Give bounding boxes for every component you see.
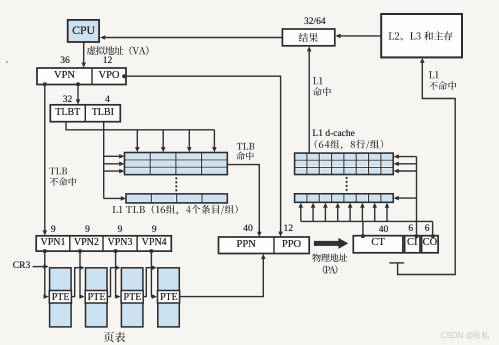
wire: VPN to TLBT/TLBI — [76, 84, 81, 104]
wire: PTE1 to page table 2 — [71, 265, 85, 296]
page table column 2 with PTE — [85, 268, 107, 327]
wire: TLBT tag bus into L1 TLB sets — [66, 122, 217, 153]
arrow: physical address thick arrow — [314, 238, 348, 249]
wire: VPN2 to PTE2 — [79, 251, 84, 299]
node: CT top junction — [361, 234, 365, 238]
wire: VPO to PPO — [124, 76, 283, 237]
text: VPO — [98, 70, 119, 82]
ellipsis dots between TLB grids — [175, 177, 177, 191]
box: L2 L3 and main memory — [381, 14, 462, 57]
label: L1 miss — [429, 71, 457, 90]
grid: L1 TLB upper 4x3 — [125, 153, 228, 175]
watermark: CSDN — [441, 331, 474, 340]
text: L1 d-cache — [312, 129, 354, 140]
text: TLBT — [55, 107, 80, 118]
label: L1 hit — [313, 77, 331, 96]
box: CPU — [68, 20, 99, 42]
text: CO — [423, 237, 438, 249]
text: PTE3 — [124, 292, 142, 303]
label: d-cache organisation — [315, 140, 384, 150]
wire: CT compare bus with arrows into cache line — [299, 203, 433, 235]
wire: TLB hit, L1 TLB to PPN — [227, 165, 261, 237]
label: page table (yebiao) — [104, 332, 126, 343]
text: VPN4 — [142, 237, 167, 248]
node: VPN2 junction — [78, 249, 82, 253]
text: VPN2 — [74, 237, 99, 248]
wire: L1 miss, physical address to L2 via right side — [389, 58, 455, 275]
node: CI top junction — [415, 234, 419, 238]
label: 9 bits VPN4 — [152, 225, 157, 236]
node: VPO output junction — [122, 74, 126, 78]
grid: L1 TLB bottom row 4x1 — [126, 194, 227, 203]
wire: PTE3 to page table 4 — [143, 265, 157, 296]
label: 40 bits CT — [379, 225, 389, 236]
wire: virtual address VA, CPU to VPN/VPO — [81, 42, 86, 68]
label: TLB hit — [236, 143, 254, 160]
wire: PTE2 to page table 3 — [107, 265, 121, 296]
node: VPN bottom junction to TLBT/TLBI — [76, 82, 80, 86]
label: 32 bits — [63, 95, 73, 106]
wire: result to CPU — [100, 35, 282, 40]
node: CO top junction — [431, 234, 435, 238]
label: 36 bits — [60, 56, 70, 67]
text: PTE1 — [52, 292, 70, 303]
wire: VPN to VPN1 (TLB miss path) — [43, 84, 48, 235]
page table column 1 with PTE — [49, 268, 71, 327]
label: 40 bits PPN — [243, 224, 253, 235]
text: PPO — [282, 239, 301, 251]
label: 9 bits VPN1 — [51, 225, 56, 236]
label: 4 bits — [105, 95, 110, 106]
text: TLBI — [92, 107, 114, 118]
node: VPN bottom-left junction — [43, 82, 47, 86]
page table column 4 with PTE — [158, 268, 180, 327]
node: VPN1 junction — [43, 249, 47, 253]
box: CI — [405, 236, 420, 253]
wire: VPN1 to PTE1 — [44, 251, 49, 299]
label: virtual address (VA) — [87, 46, 149, 55]
grid: L1 d-cache bottom row 8x1 — [295, 194, 394, 203]
text: PPN — [237, 239, 256, 251]
label: 32/64 result width — [304, 17, 326, 28]
scan speck — [6, 61, 8, 63]
wire: L1 hit, d-cache to result — [307, 46, 312, 153]
label: 12 bits PPO — [284, 224, 294, 235]
ellipsis dots between d-cache grids — [346, 177, 348, 191]
text: CPU — [72, 24, 95, 37]
box: TLBT/TLBI — [50, 105, 120, 122]
wire: CR3 to first page table — [33, 264, 49, 269]
box: CT — [353, 236, 403, 253]
box: VPN/VPO virtual address — [37, 68, 126, 85]
box: VPN1-VPN4 — [36, 236, 171, 251]
grid: L1 d-cache upper 8x3 — [295, 153, 394, 174]
text: CT — [371, 237, 384, 249]
label: 9 bits VPN2 — [85, 225, 90, 236]
label: 6 bits CI — [408, 224, 413, 235]
box: CO — [422, 236, 439, 253]
wire: CI index into L1 d-cache rows — [394, 154, 417, 236]
text: VPN — [54, 70, 75, 82]
text: PTE4 — [160, 292, 178, 303]
label: TLB miss — [50, 168, 77, 186]
wire: TLBI index into L1 TLB rows — [104, 122, 126, 201]
wire: VPN4 to PTE4 — [151, 251, 157, 299]
label: result text — [299, 33, 318, 42]
text: VPN1 — [40, 237, 65, 248]
page table column 3 with PTE — [121, 268, 143, 327]
text: CI — [407, 237, 418, 249]
node: VPN4 junction — [149, 249, 153, 253]
label: 6 bits CO — [425, 224, 430, 235]
watermark: xisi — [473, 331, 489, 339]
label: physical address PA — [312, 254, 347, 275]
label: 12 bits — [103, 56, 113, 67]
box: result (jieguo) — [282, 29, 334, 46]
text: PTE2 — [88, 292, 106, 303]
wire: PTE4 to PPN — [179, 254, 265, 297]
text: CR3 — [13, 261, 30, 272]
wire: VPN3 to PTE3 — [115, 251, 120, 299]
label: L2 L3 main memory text — [389, 31, 453, 40]
node: VPN3 junction — [114, 249, 118, 253]
box: PPN/PPO physical address — [219, 237, 310, 254]
label: 9 bits VPN3 — [118, 225, 123, 236]
text: VPN3 — [107, 237, 132, 248]
label: L1 TLB organisation — [113, 205, 238, 215]
wire: L2 to result — [335, 34, 381, 39]
